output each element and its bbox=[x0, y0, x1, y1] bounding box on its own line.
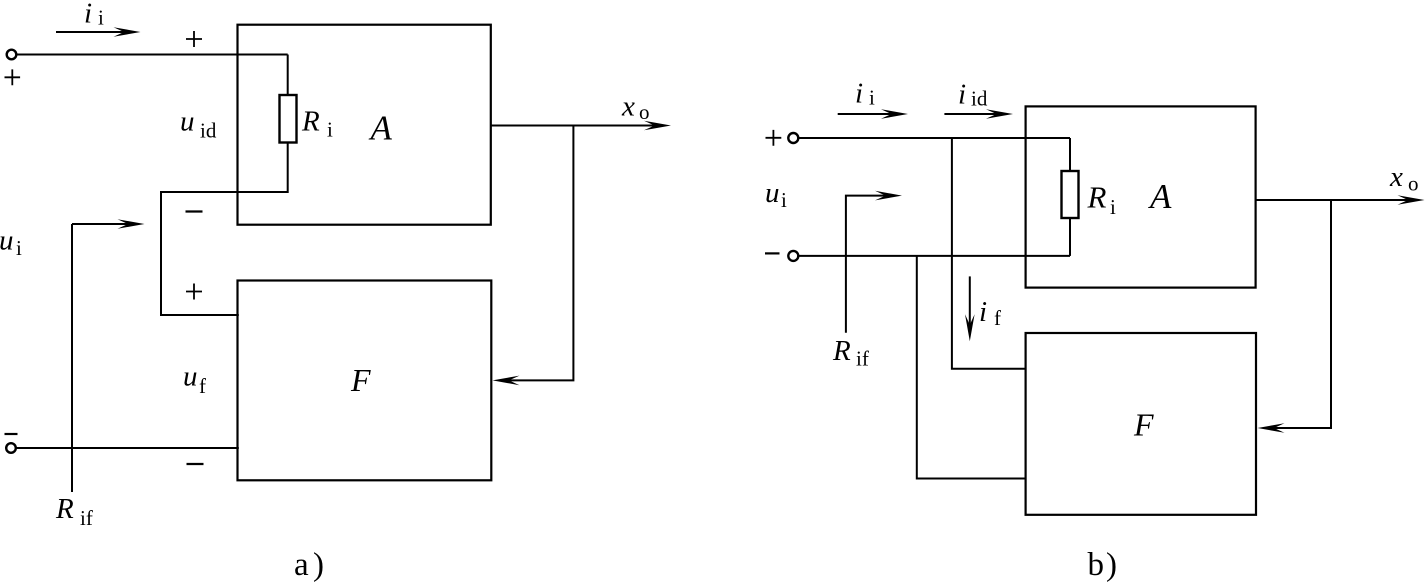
svg-text:R: R bbox=[301, 105, 320, 137]
label + at F input bbox=[186, 284, 202, 300]
arrowhead x_o output (fig b) bbox=[1398, 195, 1425, 205]
arrowhead u_i (fig b) bbox=[875, 191, 902, 201]
label - of terminal T2 bbox=[5, 433, 18, 435]
svg-text:R: R bbox=[55, 493, 74, 525]
svg-text:i: i bbox=[84, 0, 92, 30]
svg-text:o: o bbox=[1408, 171, 1419, 195]
svg-text:i: i bbox=[1110, 195, 1116, 219]
svg-text:if: if bbox=[856, 346, 869, 370]
wire: i_f branch from + node into F upper input bbox=[952, 138, 1026, 369]
wire: output of A bbox=[491, 125, 658, 127]
svg-text:F: F bbox=[1133, 407, 1154, 443]
wire: stub resistor top (fig b) bbox=[1069, 138, 1071, 171]
label + at A input bbox=[186, 31, 202, 47]
arrowhead feedback into F (fig b) bbox=[1258, 423, 1285, 433]
svg-text:if: if bbox=[80, 506, 93, 530]
wire: Rif measurement line (vertical) bbox=[71, 224, 73, 492]
svg-text:i: i bbox=[16, 236, 22, 260]
wire: branch from - node into F lower input bbox=[917, 256, 1026, 479]
label - at A input bottom bbox=[186, 210, 203, 212]
svg-text:i: i bbox=[855, 78, 863, 110]
svg-text:f: f bbox=[199, 374, 206, 398]
wire: T3 to resistor node (top) bbox=[799, 137, 1071, 139]
svg-text:x: x bbox=[1389, 161, 1403, 193]
arrow i_f shaft (downward) bbox=[969, 276, 971, 328]
wire: feedback tap down to F (fig b) bbox=[1271, 200, 1331, 428]
svg-text:b: b bbox=[1088, 547, 1105, 583]
svg-text:id: id bbox=[200, 118, 217, 142]
arrowhead x_o output (fig a) bbox=[644, 121, 671, 131]
input terminal T1 (top, +) bbox=[7, 50, 17, 60]
box F (feedback network, fig b) bbox=[1026, 333, 1256, 515]
svg-text:i: i bbox=[869, 86, 875, 110]
svg-text:u: u bbox=[765, 177, 780, 209]
svg-text:R: R bbox=[832, 335, 851, 367]
wire: resistor Ri bottom to minus node bbox=[161, 143, 288, 316]
input terminal T3 (+, fig b) bbox=[788, 133, 798, 143]
wire: stub into resistor Ri top bbox=[287, 55, 289, 96]
svg-text:f: f bbox=[994, 306, 1001, 330]
wire: stub resistor bottom (fig b) bbox=[1069, 218, 1071, 256]
svg-text:i: i bbox=[98, 6, 104, 30]
arrowhead i_i (fig a) bbox=[114, 27, 141, 37]
resistor Ri (fig b) bbox=[1062, 171, 1079, 218]
wire: T1 to resistor Ri top node bbox=[16, 54, 287, 56]
resistor Ri (fig a) bbox=[280, 95, 297, 143]
svg-text:): ) bbox=[313, 547, 324, 583]
svg-text:R: R bbox=[1087, 180, 1107, 215]
label - of terminal T4 bbox=[765, 252, 780, 254]
svg-text:): ) bbox=[1106, 547, 1117, 583]
wire: T4 to resistor node (bottom) bbox=[799, 255, 1071, 257]
svg-text:i: i bbox=[781, 188, 787, 212]
label - at F input bottom bbox=[187, 463, 204, 465]
svg-text:o: o bbox=[639, 100, 650, 124]
box F (feedback network, fig a) bbox=[238, 281, 492, 481]
wire: output of A (fig b) bbox=[1256, 199, 1411, 201]
arrowhead i_f (fig b, down) bbox=[965, 314, 975, 341]
svg-text:u: u bbox=[180, 106, 195, 138]
box A (amplifier) bbox=[238, 25, 491, 225]
input terminal T4 (-, fig b) bbox=[788, 251, 798, 261]
svg-text:a: a bbox=[294, 547, 309, 583]
wire: feedback tap down to F bbox=[505, 126, 573, 381]
arrowhead feedback into F (fig a) bbox=[493, 376, 520, 386]
svg-text:A: A bbox=[1148, 177, 1172, 216]
arrow u_i direction shaft bbox=[72, 223, 131, 225]
arrow i_i (fig b) shaft bbox=[838, 113, 895, 115]
label + of terminal T3 bbox=[766, 130, 782, 146]
arrow i_i current direction bbox=[56, 31, 128, 33]
input terminal T2 (bottom, -) bbox=[6, 443, 16, 453]
svg-text:i: i bbox=[979, 296, 987, 328]
svg-text:F: F bbox=[350, 362, 371, 398]
arrow i_id (fig b) shaft bbox=[944, 113, 1000, 115]
svg-text:id: id bbox=[971, 87, 988, 111]
svg-text:u: u bbox=[183, 360, 198, 392]
label + of terminal T1 bbox=[5, 69, 21, 85]
svg-text:A: A bbox=[369, 108, 393, 147]
arrowhead u_i (fig a) bbox=[118, 219, 145, 229]
svg-text:i: i bbox=[958, 79, 966, 111]
svg-text:u: u bbox=[0, 225, 14, 257]
box A (amplifier, fig b) bbox=[1026, 106, 1256, 287]
wire: T2 to F bottom input bbox=[16, 447, 239, 449]
svg-text:x: x bbox=[621, 90, 635, 122]
arrowhead i_id (fig b) bbox=[986, 109, 1013, 119]
arrowhead i_i (fig b) bbox=[881, 109, 908, 119]
svg-text:i: i bbox=[327, 117, 333, 141]
arrow u_i (fig b) with Rif vertical line bbox=[846, 196, 889, 333]
